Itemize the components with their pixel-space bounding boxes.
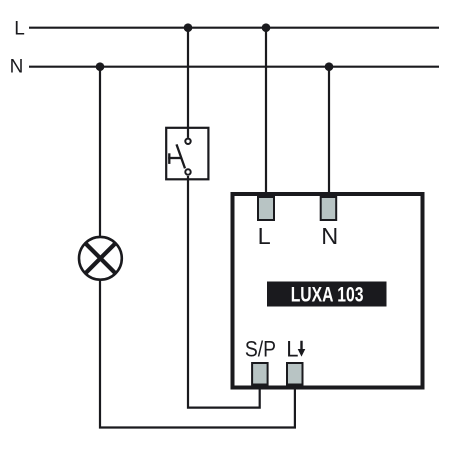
lamp X stroke 1 xyxy=(85,243,115,273)
junction on N at device feed xyxy=(325,62,334,71)
switch actuator T-bar horizontal xyxy=(168,157,181,159)
svg-text:L: L xyxy=(14,19,25,40)
svg-text:L: L xyxy=(258,223,271,249)
terminal S/P xyxy=(252,363,268,385)
switch bottom contact xyxy=(185,169,190,174)
wire N neutral line xyxy=(29,66,439,68)
terminal L-down xyxy=(287,363,303,385)
svg-text:L: L xyxy=(286,336,298,361)
wire from N line to lamp xyxy=(99,67,101,237)
device box xyxy=(233,194,423,388)
svg-text:S/P: S/P xyxy=(245,336,276,361)
lamp E1 xyxy=(79,237,122,280)
wire from N line to terminal N xyxy=(328,67,330,197)
lamp X stroke 2 xyxy=(85,243,115,273)
switch actuator T-bar vertical xyxy=(168,153,170,164)
label plate LUXA 103 xyxy=(267,282,387,307)
svg-text:N: N xyxy=(321,223,338,249)
wire from L line to switch xyxy=(187,28,189,138)
switch lever xyxy=(177,144,186,168)
device LUXA 103 xyxy=(233,194,423,388)
wire from switch to S/P terminal xyxy=(188,176,260,408)
switch top contact xyxy=(185,139,190,144)
svg-text:N: N xyxy=(10,57,24,78)
wire from lamp to L-down terminal xyxy=(100,280,295,428)
arrow down of L-down label xyxy=(298,341,306,357)
wire from L line to terminal L xyxy=(265,28,267,197)
junction on L at device feed xyxy=(262,23,271,32)
wire L phase line xyxy=(29,27,439,29)
terminal N xyxy=(321,197,337,220)
junction on L at switch feed xyxy=(184,23,193,32)
junction on N at lamp feed xyxy=(96,62,105,71)
push-button switch S1 xyxy=(166,128,208,180)
lamp circle xyxy=(79,237,122,280)
terminal L xyxy=(258,197,274,220)
svg-text:LUXA 103: LUXA 103 xyxy=(291,284,364,307)
switch box xyxy=(166,128,208,180)
